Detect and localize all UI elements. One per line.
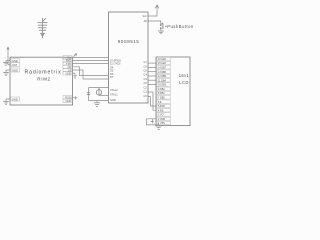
pin 11 DB4 (LCD) xyxy=(157,79,171,83)
wire XTAL1 xyxy=(99,94,109,96)
wire RIM2 AF to U1 (elbow) xyxy=(73,70,109,79)
svg-text:90S8515: 90S8515 xyxy=(118,39,140,44)
pin 4 RS (LCD) xyxy=(157,109,171,113)
svg-text:GND: GND xyxy=(66,71,72,75)
Vcc symbol (top right) xyxy=(155,5,158,9)
pin 12 DB5 (LCD) xyxy=(157,74,171,78)
wire LCD VSS stub xyxy=(158,123,160,125)
pin 3 VO (LCD) xyxy=(157,113,171,117)
svg-text:10 DB3: 10 DB3 xyxy=(158,84,167,87)
svg-text:LCD: LCD xyxy=(179,80,188,85)
antenna ANT1 xyxy=(38,18,48,38)
pin 1 VSS (LCD) xyxy=(157,121,171,125)
pin AF (RIM2 right row5) xyxy=(63,68,72,72)
svg-text:XTAL2: XTAL2 xyxy=(110,88,118,92)
pin GND (RIM2 right bottom2) xyxy=(63,99,72,103)
wire LCD VDD loop xyxy=(147,119,159,125)
svg-text:2 VDD: 2 VDD xyxy=(158,118,165,121)
wire RIM2 to U1 (row1) xyxy=(73,56,109,58)
svg-text:1 VSS: 1 VSS xyxy=(158,122,165,125)
svg-text:RIM2: RIM2 xyxy=(37,77,50,82)
pin ANT (RIM2 left) xyxy=(8,63,20,67)
svg-text:C7: C7 xyxy=(143,60,147,64)
svg-text:GND: GND xyxy=(12,97,18,101)
pin 13 DB6 (LCD) xyxy=(157,70,171,74)
svg-text:7 DB0: 7 DB0 xyxy=(158,97,165,100)
svg-text:3 VO: 3 VO xyxy=(158,114,164,117)
wire U1 C6 to LCD DB5 xyxy=(148,66,156,68)
pin GND (RIM2 right row6) xyxy=(63,71,72,75)
svg-text:12 DB5: 12 DB5 xyxy=(158,75,167,78)
svg-text:A0: A0 xyxy=(144,19,148,23)
ground (below mid GND pin) xyxy=(3,72,9,75)
svg-text:ANT: ANT xyxy=(12,63,18,67)
pin CD (RIM2 right row4) xyxy=(63,65,72,69)
svg-text:11 DB4: 11 DB4 xyxy=(158,79,166,82)
pin GND (RIM2 left mid) xyxy=(6,68,20,72)
svg-text:C0: C0 xyxy=(143,94,147,98)
svg-text:9 DB2: 9 DB2 xyxy=(158,88,165,91)
pin GND (RIM2 left bottom) xyxy=(6,97,20,101)
svg-text:GND: GND xyxy=(110,98,116,102)
svg-text:D7: D7 xyxy=(110,75,114,79)
Vcc cross (below VDD wire) xyxy=(151,119,154,124)
wire U1 C1 to LCD RS (elbow) xyxy=(148,92,156,110)
wire U1 C5 to LCD DB4 xyxy=(148,71,156,73)
svg-text:C2: C2 xyxy=(143,85,147,89)
svg-text:6 E: 6 E xyxy=(158,101,162,104)
svg-text:Radiometrix: Radiometrix xyxy=(24,70,61,76)
wire U1 C7 to LCD DB6 xyxy=(148,62,156,64)
pin Vcc (RIM2 right row1) xyxy=(63,56,72,60)
wire U1 C3 to LCD DB2 xyxy=(148,79,156,81)
wire antenna feed xyxy=(7,47,9,65)
svg-text:GND: GND xyxy=(12,59,18,63)
pin GND (RIM2 left top) xyxy=(6,59,20,63)
wire RIM2 RXD to U1 xyxy=(73,59,109,61)
pin TXD (RIM2 right row3) xyxy=(63,62,72,66)
svg-text:C5: C5 xyxy=(143,69,147,73)
svg-text:8 DB1: 8 DB1 xyxy=(158,92,165,95)
label PushButton xyxy=(165,26,166,27)
svg-text:XTAL1: XTAL1 xyxy=(110,93,118,97)
pin 16 K (LCD) xyxy=(157,57,171,61)
crystal Y1 xyxy=(96,88,101,96)
wire U1 A0 to pushbutton xyxy=(148,21,161,24)
pin 14 DB7 (LCD) xyxy=(157,66,171,70)
wire RIM2 CD to U1 (elbow) xyxy=(73,67,109,76)
ground (left of GND pin) xyxy=(3,61,9,66)
ground (below pushbutton) xyxy=(158,31,164,34)
svg-text:C3: C3 xyxy=(143,77,147,81)
ground (below LCD) xyxy=(155,126,162,129)
Vcc cross (RIM2 bottom right pin) xyxy=(73,96,78,99)
svg-text:11 (TXD): 11 (TXD) xyxy=(110,62,120,66)
svg-text:C6: C6 xyxy=(143,64,147,68)
capacitor C1 (on left rail) xyxy=(87,93,90,95)
svg-text:PushButton: PushButton xyxy=(167,24,194,29)
svg-text:C2: C2 xyxy=(143,81,147,85)
svg-text:C1: C1 xyxy=(143,90,147,94)
ground (below bottom GND pin) xyxy=(3,101,9,104)
pin 6 E (LCD) xyxy=(157,100,171,104)
pin 10 DB3 (LCD) xyxy=(157,83,171,87)
pin RXD (RIM2 right row2) xyxy=(63,59,72,63)
svg-text:15 LED: 15 LED xyxy=(158,62,166,65)
pin 7 DB0 (LCD) xyxy=(157,96,171,100)
ground (xtal loop) xyxy=(94,101,100,107)
svg-text:4 RS: 4 RS xyxy=(158,109,164,112)
wire left vertical (xtal loop) xyxy=(88,88,90,101)
svg-text:GND: GND xyxy=(66,99,72,103)
wire ground rail (xtal loop) xyxy=(89,100,109,102)
pin 9 DB2 (LCD) xyxy=(157,87,171,91)
svg-text:5 R/W: 5 R/W xyxy=(158,105,165,108)
pin 5 R/W (LCD) xyxy=(157,104,171,108)
IC U1 90S8515 xyxy=(109,12,149,103)
ground (on RIM2 right GND stub) xyxy=(73,73,77,78)
svg-text:13 DB6: 13 DB6 xyxy=(158,71,167,74)
pushbutton SW1 xyxy=(160,23,163,30)
svg-text:14 DB7: 14 DB7 xyxy=(158,67,167,70)
module U2 Radiometrix RIM2 xyxy=(10,57,73,105)
pin 8 DB1 (LCD) xyxy=(157,91,171,95)
wire U1 C4 to LCD DB3 xyxy=(148,75,156,77)
wire U1 C0 to LCD E (elbow) xyxy=(148,97,156,107)
pin RSSI (RIM2 right bottom1) xyxy=(63,96,72,100)
pin 15 A (LCD) xyxy=(157,61,171,65)
wire RIM2 TXD to U1 xyxy=(73,63,109,65)
LCD module 16x1 xyxy=(156,57,190,126)
svg-text:16 LED: 16 LED xyxy=(158,58,166,61)
pin 2 VDD (LCD) xyxy=(157,117,171,121)
svg-text:GND: GND xyxy=(12,68,18,72)
wire U1 C2 to LCD DB1 xyxy=(148,84,156,86)
svg-text:Vcc: Vcc xyxy=(142,14,147,18)
svg-text:C4: C4 xyxy=(143,73,147,77)
svg-text:16x1: 16x1 xyxy=(179,73,190,78)
wire XTAL2 rail xyxy=(89,87,109,89)
Vcc arrow (above RIM2) xyxy=(74,54,77,58)
wire U1 Vcc to supply xyxy=(148,9,157,16)
